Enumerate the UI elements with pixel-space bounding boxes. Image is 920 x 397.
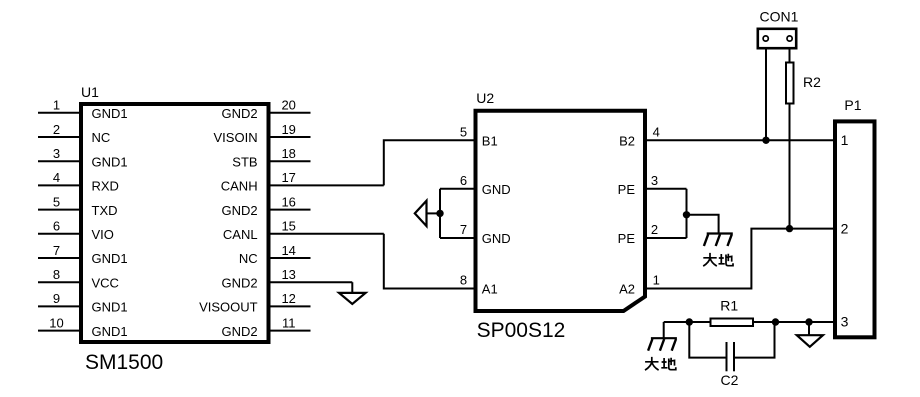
- U1 pin 13 (GND2): [221, 267, 352, 290]
- U1 pin 6 (VIO): [38, 219, 114, 242]
- junction dot CON1 pin to B2 wire: [762, 137, 769, 144]
- wire CON1 left pin down to B2 net: [765, 50, 767, 141]
- svg-text:VCC: VCC: [92, 275, 119, 290]
- wire R2 bottom to A2 net: [789, 105, 791, 229]
- svg-text:GND2: GND2: [221, 275, 257, 290]
- svg-text:SM1500: SM1500: [85, 351, 163, 374]
- wire CANH net U1.17 to U2.5: [384, 140, 474, 185]
- junction dot R2 on A2 net: [786, 225, 793, 232]
- U1 pin 10 (GND1): [38, 315, 128, 338]
- U1 pin 17 (CANH): [221, 170, 384, 193]
- U1 pin 8 (VCC): [38, 267, 119, 290]
- svg-text:GND2: GND2: [221, 203, 257, 218]
- svg-text:5: 5: [53, 194, 60, 209]
- svg-text:R1: R1: [720, 298, 738, 314]
- U1 pin 15 (CANL): [223, 219, 384, 242]
- svg-text:U2: U2: [476, 90, 494, 106]
- svg-text:GND1: GND1: [92, 106, 128, 121]
- svg-text:15: 15: [281, 219, 295, 234]
- svg-text:18: 18: [281, 146, 295, 161]
- svg-text:1: 1: [653, 273, 660, 288]
- svg-text:A1: A1: [482, 282, 498, 297]
- svg-text:8: 8: [460, 273, 467, 288]
- svg-text:U1: U1: [81, 84, 99, 100]
- svg-text:CON1: CON1: [760, 9, 799, 25]
- U1 pin 19 (VISOIN): [214, 122, 311, 145]
- junction dot on PE link: [683, 211, 690, 218]
- U2 pin 2 (PE): [618, 222, 687, 246]
- U1 pin 2 (NC): [38, 122, 110, 145]
- connector P1 body: [835, 121, 875, 337]
- junction dot on U2 GND link: [436, 210, 443, 217]
- svg-text:GND: GND: [482, 231, 511, 246]
- svg-text:GND1: GND1: [92, 154, 128, 169]
- svg-text:VISOOUT: VISOOUT: [199, 300, 258, 315]
- svg-text:6: 6: [53, 219, 60, 234]
- svg-text:PE: PE: [618, 182, 636, 197]
- wire joining U2 pins 6 and 7: [439, 189, 441, 238]
- U2 pin 3 (PE): [618, 173, 687, 197]
- U2 pin 8 (A1): [460, 273, 498, 297]
- svg-text:14: 14: [281, 243, 295, 258]
- U1 pin 3 (GND1): [38, 146, 128, 169]
- wire down to earth (left of R1): [663, 322, 665, 338]
- earth label 大地 (PE): [703, 253, 733, 266]
- earth ground symbol (PE): [704, 234, 733, 247]
- svg-text:13: 13: [281, 267, 295, 282]
- U2 pin 6 (GND): [440, 173, 511, 197]
- svg-text:17: 17: [281, 170, 295, 185]
- svg-text:9: 9: [53, 291, 60, 306]
- junction dot ground stub: [805, 318, 812, 325]
- U2 pin 4 (B2): [619, 124, 660, 148]
- svg-text:7: 7: [460, 222, 467, 237]
- wire CANL net U1.15 to U2.8: [384, 234, 474, 289]
- svg-text:19: 19: [281, 122, 295, 137]
- wire PE junction to earth: [687, 215, 719, 234]
- svg-text:6: 6: [460, 173, 467, 188]
- svg-text:GND1: GND1: [92, 324, 128, 339]
- svg-text:GND: GND: [482, 182, 511, 197]
- svg-text:3: 3: [651, 173, 658, 188]
- svg-text:GND1: GND1: [92, 251, 128, 266]
- svg-text:STB: STB: [232, 154, 257, 169]
- svg-text:A2: A2: [619, 282, 635, 297]
- ground arrow symbol (open left-pointing triangle): [415, 201, 427, 226]
- svg-text:2: 2: [841, 220, 849, 236]
- svg-text:CANL: CANL: [223, 227, 258, 242]
- U1 pin 12 (VISOOUT): [199, 291, 310, 314]
- IC U1 body: [81, 104, 269, 342]
- svg-text:C2: C2: [721, 372, 739, 388]
- svg-text:RXD: RXD: [92, 179, 119, 194]
- U1 pin 20 (GND2): [221, 98, 310, 121]
- svg-text:GND1: GND1: [92, 300, 128, 315]
- U1 pin 1 (GND1): [38, 98, 128, 121]
- U1 pin 14 (NC): [239, 243, 311, 266]
- svg-text:1: 1: [841, 132, 849, 148]
- wire U2.1 (A2) to P1.2: [647, 229, 833, 289]
- svg-text:GND2: GND2: [221, 106, 257, 121]
- svg-text:CANH: CANH: [221, 179, 258, 194]
- wire P1.3 net (R1 row): [664, 321, 833, 323]
- svg-text:B2: B2: [619, 134, 635, 149]
- earth ground symbol (R1 net): [648, 338, 677, 351]
- svg-text:12: 12: [281, 291, 295, 306]
- svg-text:8: 8: [53, 267, 60, 282]
- connector CON1 body: [758, 29, 796, 48]
- svg-text:4: 4: [653, 124, 660, 139]
- svg-text:TXD: TXD: [92, 203, 118, 218]
- svg-text:20: 20: [281, 98, 295, 113]
- resistor R2 body: [786, 63, 794, 104]
- U1 pin 9 (GND1): [38, 291, 128, 314]
- svg-text:R2: R2: [803, 74, 821, 90]
- svg-text:4: 4: [53, 170, 60, 185]
- wire C2 branch left: [689, 322, 725, 358]
- resistor R1 body: [711, 319, 754, 327]
- U2 pin 5 (B1): [460, 124, 498, 148]
- wire U2.4 (B2) to P1.1: [647, 139, 833, 141]
- svg-text:NC: NC: [92, 130, 111, 145]
- svg-text:3: 3: [53, 146, 60, 161]
- svg-text:5: 5: [460, 124, 467, 139]
- svg-text:1: 1: [53, 98, 60, 113]
- svg-text:P1: P1: [844, 97, 861, 113]
- U2 pin 1 (A2): [619, 273, 660, 297]
- earth label 大地 (R1 net): [645, 357, 676, 370]
- IC U2 body (chamfered corner): [476, 111, 646, 311]
- ground (signal) at P1.3: [797, 322, 823, 347]
- U1 pin 16 (GND2): [221, 194, 310, 217]
- U1 pin 5 (TXD): [38, 194, 118, 217]
- capacitor C2 plates: [727, 342, 735, 371]
- U1 pin 4 (RXD): [38, 170, 119, 193]
- U1 pin 11 (GND2): [221, 315, 310, 338]
- svg-text:GND2: GND2: [221, 324, 257, 339]
- ground (signal) at U1 pin 13: [339, 282, 366, 304]
- svg-text:B1: B1: [482, 134, 498, 149]
- svg-text:3: 3: [841, 314, 849, 330]
- U2 pin 7 (GND): [440, 222, 511, 246]
- svg-text:11: 11: [282, 315, 296, 330]
- U1 pin 18 (STB): [232, 146, 310, 169]
- svg-text:NC: NC: [239, 251, 258, 266]
- wire C2 branch right: [735, 322, 775, 358]
- svg-text:16: 16: [281, 194, 295, 209]
- CON1 pin circle left: [763, 36, 768, 41]
- svg-text:SP00S12: SP00S12: [477, 319, 566, 342]
- U1 pin 7 (GND1): [38, 243, 128, 266]
- wire from GND junction to arrow: [427, 212, 441, 214]
- svg-text:2: 2: [651, 222, 658, 237]
- svg-text:VIO: VIO: [92, 227, 114, 242]
- CON1 pin circle right: [787, 36, 792, 41]
- wire joining U2 pins 3 and 2 (PE link): [686, 189, 688, 238]
- svg-text:10: 10: [49, 315, 63, 330]
- junction dot R1 left: [686, 318, 693, 325]
- svg-text:7: 7: [53, 243, 60, 258]
- svg-text:PE: PE: [618, 231, 636, 246]
- wire CON1 right pin to R2: [789, 50, 791, 62]
- junction dot R1 right: [772, 318, 779, 325]
- svg-text:2: 2: [53, 122, 60, 137]
- svg-text:VISOIN: VISOIN: [214, 130, 258, 145]
